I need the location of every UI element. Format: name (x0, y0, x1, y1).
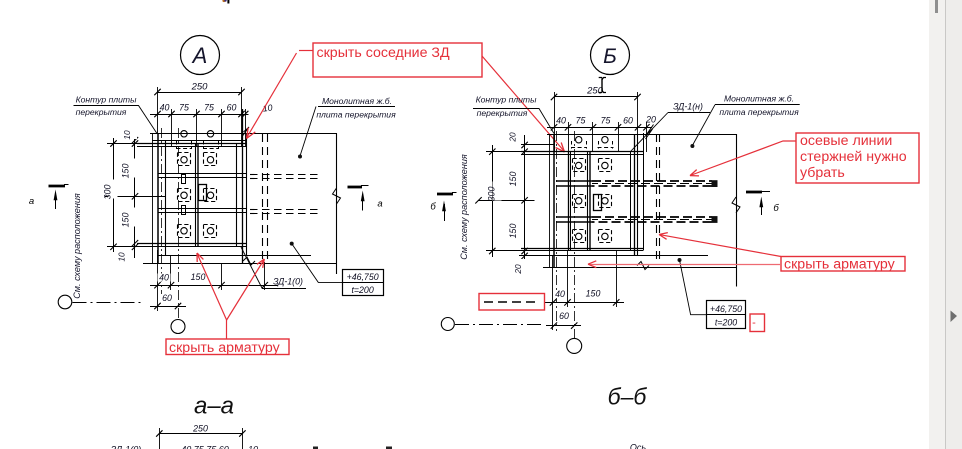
svg-text:а: а (377, 199, 382, 210)
detail lower line B (554, 255, 708, 257)
red leader hide rebar B diagonal (660, 235, 781, 257)
plate center seam verticals A (195, 144, 197, 248)
plate bottom line A (137, 243, 247, 245)
rebar rod row 1 B (556, 180, 592, 182)
plate axis dashdot 2 B (574, 131, 576, 338)
svg-text:20: 20 (508, 132, 518, 143)
svg-text:75: 75 (204, 103, 214, 113)
bottom dim line 2 B (546, 325, 581, 327)
break mark at corner A (243, 127, 250, 136)
elevation box leader A (290, 242, 294, 246)
svg-text:60: 60 (623, 116, 633, 126)
dim extension verticals mid B (568, 122, 570, 152)
svg-text:См. схему расположения: См. схему расположения (72, 193, 82, 299)
dim extension verticals mid A (171, 109, 173, 146)
svg-text:60: 60 (559, 311, 569, 321)
svg-text:плита перекрытия: плита перекрытия (719, 107, 799, 117)
svg-text:Ось: Ось (630, 443, 647, 449)
svg-text:150: 150 (121, 164, 131, 179)
svg-text:+46,750: +46,750 (347, 272, 379, 282)
side panel gray (945, 0, 962, 449)
stud grid view B (576, 162, 582, 168)
svg-text:75: 75 (576, 116, 586, 126)
left dim texts B (514, 127, 523, 141)
bottom dim verticals A (157, 250, 159, 311)
left dim 300 vertical B (492, 145, 494, 257)
svg-text:скрыть арматуру: скрыть арматуру (169, 340, 281, 356)
svg-text:10: 10 (122, 130, 132, 140)
row line pair 1 A solid (158, 173, 247, 175)
center anchor rect B (594, 195, 602, 211)
plate top line B (521, 151, 644, 153)
slab left contour vertical B (549, 134, 551, 268)
text cursor I-beam (599, 78, 606, 80)
phantom studs adjacent detail B (576, 137, 582, 143)
view A marker circle (181, 36, 220, 75)
panel expand arrow (950, 310, 958, 323)
ZD-1(n) leader (630, 113, 668, 153)
plate mid extension line A (105, 196, 166, 198)
left dim vertical A (134, 128, 136, 258)
svg-text:300: 300 (487, 187, 497, 202)
axis circle bottom A (171, 320, 185, 334)
svg-text:250: 250 (191, 82, 209, 93)
section mark b left arrow (444, 204, 446, 221)
red minus box (750, 314, 765, 332)
elevation box A (343, 270, 384, 296)
section mark a left arrow (55, 193, 57, 209)
slab top line B (547, 134, 737, 136)
slab right edge vertical A (336, 134, 338, 275)
dim 250 line view A (158, 92, 242, 94)
svg-text:а–а: а–а (194, 393, 234, 420)
red callout box hide adjacent ZD (313, 43, 482, 77)
svg-text:Б: Б (603, 45, 617, 68)
slab bottom break A (243, 257, 255, 265)
elevation box leader B (678, 258, 682, 262)
svg-text:300: 300 (103, 185, 113, 200)
svg-text:скрыть соседние ЗД: скрыть соседние ЗД (317, 45, 450, 61)
plate axis dashdot 1 B (556, 131, 558, 331)
svg-text:Монолитная ж.б.: Монолитная ж.б. (724, 94, 794, 104)
label monolit underline leader dot A (318, 106, 395, 108)
row line pair 2 A solid (158, 208, 247, 210)
svg-text:б: б (430, 202, 436, 213)
bottom dim line 1 B (545, 302, 624, 304)
plate top lip line A (152, 140, 247, 142)
bottom dim texts 1 B (554, 290, 567, 298)
svg-text:40: 40 (159, 273, 169, 283)
red leader axial lines (692, 141, 797, 175)
section mark b right bar (746, 191, 762, 194)
dim line 40-75-75-60 view A (150, 114, 249, 116)
label kontur underline leader B (473, 109, 554, 134)
label kontur underline and leader A (74, 106, 158, 134)
left dim tick extensions B (486, 151, 530, 153)
section mark a right arrow (362, 194, 364, 211)
plate vertical left inner B (568, 152, 570, 251)
svg-text:ЗД-1(0): ЗД-1(0) (111, 445, 142, 449)
svg-text:Монолитная ж.б.: Монолитная ж.б. (322, 96, 392, 106)
plate top line A (137, 143, 247, 145)
bottom dim texts 1 A (158, 274, 171, 282)
section mark a right bar (348, 186, 363, 189)
plate vertical left edge A (157, 134, 159, 264)
plate vertical left edge B (553, 134, 555, 268)
plate vertical left inner A (165, 140, 167, 256)
svg-text:60: 60 (162, 293, 172, 303)
svg-text:150: 150 (508, 224, 518, 239)
ZD-1(0) leader (241, 247, 262, 288)
red callout box hide rebar A (166, 339, 289, 355)
plate top line 2 B (521, 154, 644, 156)
stud grid view A (181, 157, 187, 163)
svg-text:150: 150 (191, 272, 206, 282)
slab right edge break A (333, 188, 341, 204)
plate axis dashdot 2 A (178, 128, 180, 319)
left dim 300 vertical A (113, 138, 115, 252)
bottom dim verticals B (552, 256, 554, 330)
svg-text:стержней нужно: стержней нужно (800, 149, 907, 165)
svg-text:40 75 75 60: 40 75 75 60 (181, 445, 229, 449)
section mark b left bar (437, 193, 453, 196)
dim line 40-75-75-60-20 view B (547, 127, 652, 129)
svg-text:150: 150 (586, 289, 601, 299)
page gutter strip right (929, 0, 945, 449)
slab right edge vertical B (736, 134, 738, 287)
slab bottom line A (143, 263, 337, 265)
bottom dim line 2 A (150, 306, 186, 308)
svg-text:перекрытия: перекрытия (477, 108, 528, 118)
plate axis dashdot 1 A (161, 128, 163, 295)
svg-text:перекрытия: перекрытия (76, 107, 127, 117)
dashed rebar verticals A (262, 134, 264, 260)
scrollbar thumb (935, 0, 938, 13)
svg-text:ЗД-1(0): ЗД-1(0) (273, 277, 303, 287)
slab bottom break B (637, 262, 649, 270)
plate top line 2 A (137, 146, 247, 148)
svg-text:А: А (191, 43, 208, 68)
axis circle bottom B (567, 338, 582, 353)
svg-text:250: 250 (586, 86, 604, 97)
svg-text:40: 40 (556, 116, 566, 126)
red callout box axial lines (796, 133, 919, 183)
svg-text:60: 60 (227, 103, 237, 113)
red stub left of box (299, 50, 313, 52)
center anchor rect A (199, 185, 207, 201)
plate bottom line 2 A (137, 246, 247, 248)
plate outer right vertical B (643, 133, 645, 250)
svg-text:а: а (29, 196, 34, 207)
red leader to view A plate (247, 53, 297, 138)
left dim vertical B (524, 135, 526, 262)
svg-text:плита перекрытия: плита перекрытия (316, 110, 396, 120)
plate vertical right edge A (242, 109, 244, 263)
red leader hide rebar B horizontal (590, 264, 782, 266)
svg-text:75: 75 (179, 103, 189, 113)
svg-text:150: 150 (121, 213, 131, 228)
phantom stud dashed marks B (571, 147, 587, 149)
plate center seam verticals B (587, 152, 589, 251)
plate outer right vertical A (246, 134, 248, 257)
left axis circle B (441, 318, 454, 331)
svg-text:б: б (773, 203, 779, 214)
red dashed legend box B (479, 294, 545, 311)
svg-text:-: - (752, 317, 756, 329)
left dim texts A (128, 125, 137, 139)
row dashes pair 2 right of plate A (250, 209, 322, 211)
svg-text:t=200: t=200 (351, 285, 373, 295)
bottom dim text 60 A (161, 294, 174, 302)
svg-text:См. схему расположения: См. схему расположения (459, 154, 469, 260)
svg-text:Контур плиты: Контур плиты (76, 95, 138, 105)
left dim tick extensions A (107, 143, 140, 145)
svg-text:убрать: убрать (800, 165, 845, 181)
left edge small rect 1 A (182, 175, 186, 184)
svg-text:75: 75 (601, 116, 611, 126)
svg-text:40: 40 (555, 289, 565, 299)
svg-text:250: 250 (192, 424, 208, 434)
plate bottom line B (521, 248, 644, 250)
axis dashdot horizontal A (73, 302, 144, 304)
svg-text:+46,750: +46,750 (710, 304, 742, 314)
red leader to view B plate (482, 56, 564, 151)
phantom stud dashed marks A (177, 148, 193, 150)
svg-text:150: 150 (508, 172, 518, 187)
svg-text:Контур плиты: Контур плиты (476, 95, 538, 105)
elevation box B (707, 301, 746, 329)
slab bottom line B (543, 267, 736, 269)
section mark a left bar (49, 185, 66, 188)
row dashes pair 1 right of plate A (250, 174, 322, 176)
dim extension verticals top B (554, 92, 556, 152)
break mark on leader B (646, 125, 654, 140)
plate vertical right inner A (236, 144, 238, 248)
plate vertical right inner B (630, 152, 632, 251)
red leaders hide rebar A (226, 320, 228, 339)
label monolit underline leader dot B (715, 104, 800, 106)
plate vertical right edge B (634, 134, 636, 256)
section mark b right arrow (761, 200, 763, 215)
rebar rod row 2 B (556, 216, 592, 218)
svg-text:ЗД-1(н): ЗД-1(н) (673, 102, 703, 112)
slab left contour vertical A (152, 134, 154, 264)
svg-text:10: 10 (248, 445, 258, 449)
top edge cursor marks (227, 0, 229, 4)
svg-text:40: 40 (160, 103, 170, 113)
bottom dim line 1 A (150, 285, 278, 287)
bottom dim text 60 B (558, 312, 571, 320)
left edge small rect 2 A (182, 206, 186, 215)
plate bottom line 2 B (521, 250, 644, 252)
phantom studs of adjacent detail A (181, 131, 187, 137)
dashed rebar verticals B (656, 134, 658, 265)
svg-text:осевые линии: осевые линии (800, 133, 892, 149)
red callout box hide rebar B (781, 257, 905, 272)
axis dashdot horizontal B (455, 324, 542, 326)
plate top lip line B (521, 144, 554, 146)
slab top line A (150, 133, 337, 135)
svg-text:скрыть арматуру: скрыть арматуру (784, 257, 896, 273)
left axis circle A (58, 295, 72, 309)
svg-text:20: 20 (513, 264, 523, 275)
dim extension verticals top A (157, 87, 159, 134)
dim 250 line view B (554, 96, 638, 98)
svg-text:б–б: б–б (608, 384, 648, 410)
slab right edge break B (732, 197, 740, 213)
detail lower line A (158, 255, 312, 257)
svg-text:10: 10 (117, 252, 127, 262)
view B marker circle (591, 36, 630, 75)
svg-text:t=200: t=200 (715, 318, 737, 328)
